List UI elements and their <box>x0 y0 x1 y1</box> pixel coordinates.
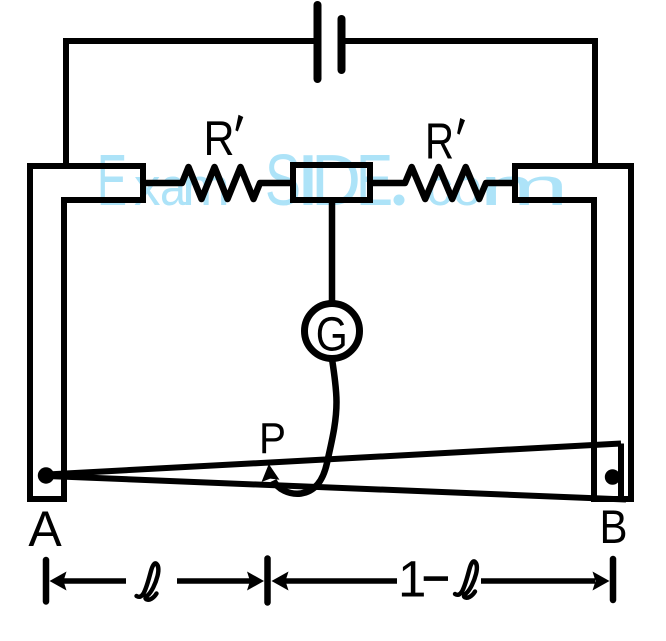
wire right vertical drop <box>592 38 598 166</box>
wire battery top left <box>66 38 314 44</box>
dimension tick right (at B) <box>610 559 617 600</box>
bridge wire upper line A to right end <box>47 444 621 475</box>
resistor R' right <box>370 167 516 199</box>
jockey arrowhead at P <box>262 464 280 482</box>
terminal block right (copper strip B) <box>515 166 631 499</box>
svg-text:A: A <box>28 501 62 557</box>
wire battery top right <box>345 38 595 44</box>
svg-text:R: R <box>425 113 454 170</box>
wire galvanometer to jockey (curved) <box>274 359 337 494</box>
svg-text:G: G <box>316 309 348 362</box>
svg-text:B: B <box>600 500 628 553</box>
svg-text:P: P <box>259 414 286 463</box>
bridge wire right vertical end <box>618 444 624 500</box>
terminal block left (copper strip A) <box>30 166 143 499</box>
svg-text:E: E <box>97 141 127 221</box>
node A dot <box>38 467 54 483</box>
resistor R' left <box>146 167 293 199</box>
svg-text:D: D <box>311 141 361 221</box>
galvanometer G <box>305 304 360 359</box>
dimension tick left (at A) <box>43 560 50 602</box>
svg-text:R: R <box>204 112 235 166</box>
battery V1 short plate <box>338 19 346 70</box>
svg-text:1: 1 <box>398 551 426 608</box>
wire left vertical drop <box>63 38 69 166</box>
dimension tick middle (at P) <box>264 559 271 603</box>
dimension arrow right-pointing at B tick <box>481 578 595 584</box>
node B dot <box>605 469 620 484</box>
terminal block middle <box>293 165 370 200</box>
bridge wire lower line A to B <box>47 476 626 500</box>
watermark ExamSIDE.com <box>97 141 569 221</box>
dimension arrow left-pointing at A <box>62 578 126 584</box>
dimension arrow left-pointing at middle tick <box>285 578 397 584</box>
battery V1 long plate <box>314 5 322 79</box>
label script ell <box>137 563 159 599</box>
wire middle block to galvanometer <box>329 200 336 303</box>
dimension arrow right-pointing at middle tick <box>177 578 250 584</box>
